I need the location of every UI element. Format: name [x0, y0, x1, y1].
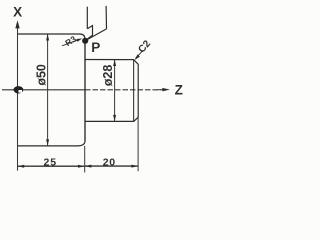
X axis — [17, 25, 19, 171]
svg-text:Z: Z — [175, 82, 183, 97]
svg-text:ø28: ø28 — [101, 65, 115, 87]
extension line mid (step face extended) — [84, 146, 86, 173]
workpiece ø50 outline with R3 fillets — [18, 34, 86, 146]
wire: step face line — [84, 40, 86, 141]
dimension ø28 — [114, 60, 116, 122]
chamfer edge line — [133, 60, 135, 122]
point P dot — [82, 38, 88, 44]
svg-text:25: 25 — [43, 156, 56, 168]
R3 leader — [62, 39, 80, 45]
svg-text:P: P — [91, 40, 100, 55]
extension line right (part right face extended) — [137, 117, 139, 171]
X axis arrowhead — [15, 20, 19, 28]
dimension 25 — [18, 165, 85, 167]
svg-text:ø50: ø50 — [35, 64, 49, 86]
tool insert — [85, 26, 92, 41]
dimension 20 — [85, 165, 138, 167]
svg-text:X: X — [13, 5, 22, 20]
Z axis — [2, 89, 164, 91]
tool shank left edge — [86, 7, 88, 29]
C2 leader — [136, 50, 144, 58]
workpiece ø28 cylinder with C2 chamfer — [85, 60, 138, 122]
dimension ø50 — [47, 34, 49, 146]
tool shank right edge — [105, 6, 107, 29]
origin symbol — [14, 86, 24, 93]
Z axis arrowhead — [162, 88, 170, 92]
tool cutting edge — [85, 29, 106, 41]
svg-text:20: 20 — [103, 156, 116, 168]
